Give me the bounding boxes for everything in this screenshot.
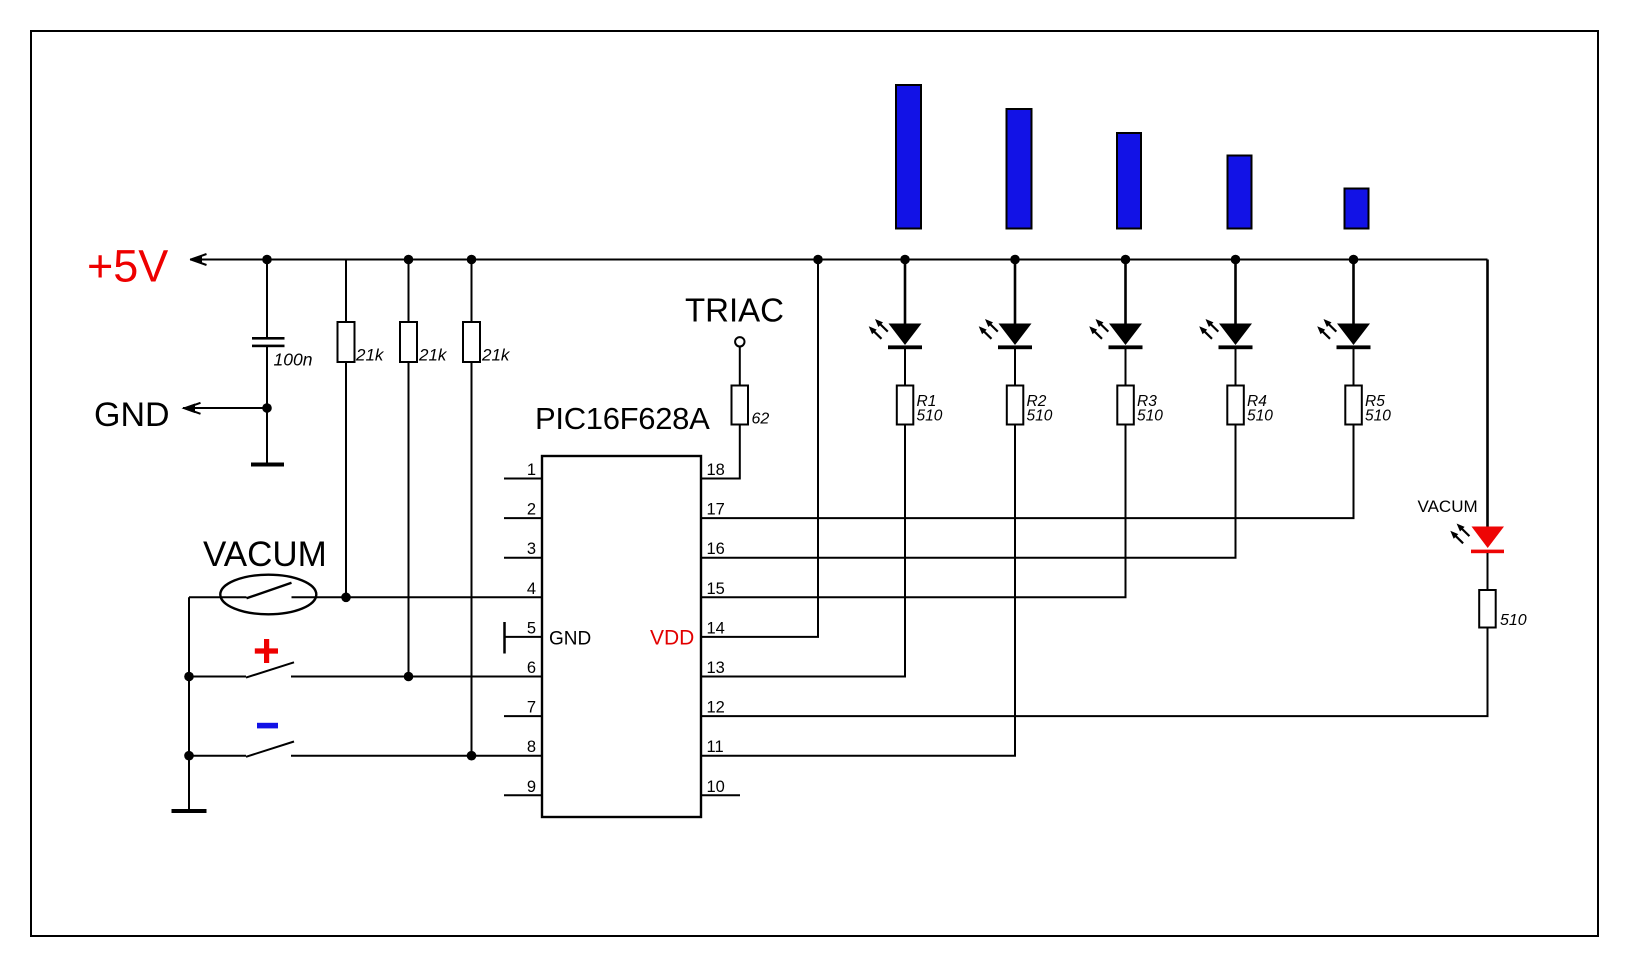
svg-text:5: 5 <box>527 619 536 637</box>
wire rail to LED4 <box>1234 260 1237 324</box>
wire pin8 left segment <box>189 755 246 757</box>
svg-text:VDD: VDD <box>650 627 694 650</box>
IC U1 PIC16F628A <box>542 456 701 817</box>
wire pin3 stub <box>504 557 542 559</box>
node LED3 junction on rail <box>1121 255 1131 265</box>
svg-text:510: 510 <box>917 408 943 425</box>
svg-text:13: 13 <box>707 659 725 677</box>
node R-21k#3 to pin8 wire <box>467 751 477 761</box>
ground (switch common) <box>172 809 207 813</box>
svg-text:7: 7 <box>527 699 536 717</box>
resistor R4 <box>1227 386 1244 425</box>
svg-text:21k: 21k <box>418 346 448 365</box>
wire pin8 right segment <box>291 755 542 757</box>
switch SW2 plus blade <box>246 662 294 677</box>
wire LED4 to R4 <box>1235 349 1237 386</box>
node R-21k#1 to pin4 wire <box>341 593 351 603</box>
svg-text:GND: GND <box>94 396 170 434</box>
svg-text:510: 510 <box>1365 408 1391 425</box>
svg-text:510: 510 <box>1027 408 1053 425</box>
svg-text:1: 1 <box>527 461 536 479</box>
wire pin4 left segment <box>189 596 247 598</box>
svg-text:510: 510 <box>1137 408 1163 425</box>
wire pin1 stub <box>504 478 542 480</box>
wire pin5 stub <box>505 636 543 638</box>
wire TRIAC terminal to R62 <box>739 347 741 386</box>
svg-text:100n: 100n <box>274 350 313 370</box>
wire pin6 right segment <box>291 676 542 678</box>
capacitor 100n <box>252 337 285 347</box>
bargraph segment 2 (blue) <box>1007 109 1032 229</box>
svg-text:8: 8 <box>527 738 536 756</box>
switch SW1 VACUM blade <box>247 583 292 599</box>
wire LED1 to R1 <box>904 349 906 386</box>
resistor 21k #2 <box>400 255 417 677</box>
label + (red) <box>255 639 278 663</box>
bargraph segment 4 (blue) <box>1228 156 1252 229</box>
svg-text:18: 18 <box>707 461 725 479</box>
bargraph segment 1 (blue) <box>896 85 921 229</box>
wire capacitor bottom lead to ground <box>266 347 268 463</box>
LED D1 <box>869 319 922 349</box>
wire pin16 to R4 <box>701 425 1236 558</box>
LED D2 <box>979 319 1032 349</box>
wire +5V rail <box>190 259 1488 261</box>
resistor R2 <box>1007 386 1024 425</box>
switch SW3 minus blade <box>246 742 294 757</box>
wire GND stub <box>183 407 267 409</box>
node TRIAC terminal <box>735 337 744 346</box>
svg-text:62: 62 <box>752 411 770 428</box>
node capacitor-GND junction <box>262 403 272 413</box>
switch SW1 enclosure ellipse <box>220 575 316 615</box>
wire pin9 stub <box>504 794 542 796</box>
wire rail to LED2 <box>1014 260 1017 324</box>
node GND arrow <box>185 403 201 414</box>
resistor 21k #1 <box>338 260 355 598</box>
wire pin11 to R2 <box>701 425 1015 756</box>
resistor 62 <box>732 386 749 425</box>
resistor R5 <box>1345 386 1362 425</box>
wire rail to LED3 <box>1124 260 1127 324</box>
wire +5V rail down to vacuum LED <box>1486 260 1489 527</box>
wire pin15 to R3 <box>701 425 1126 598</box>
svg-text:10: 10 <box>707 778 725 796</box>
wire pin13 to R1 <box>701 425 905 677</box>
node +5V arrow <box>191 254 207 265</box>
svg-text:510: 510 <box>1500 612 1527 629</box>
wire pin14 VDD to +5V rail <box>701 260 818 637</box>
wire pin12 to vacuum LED resistor <box>701 628 1488 717</box>
svg-text:16: 16 <box>707 540 725 558</box>
LED D5 <box>1317 319 1370 349</box>
resistor 21k #3 <box>463 255 480 756</box>
resistor R3 <box>1117 386 1134 425</box>
svg-text:6: 6 <box>527 659 536 677</box>
node R-21k#2 to pin6 wire <box>404 672 414 682</box>
bargraph segment 5 (blue) <box>1345 189 1369 229</box>
svg-text:12: 12 <box>707 699 725 717</box>
wire R62 to pin18 <box>701 425 740 479</box>
node LED4 junction on rail <box>1231 255 1241 265</box>
resistor R1 <box>897 386 914 425</box>
wire pin6 left segment <box>189 676 246 678</box>
wire pin7 stub <box>504 715 542 717</box>
node LED5 junction on rail <box>1349 255 1359 265</box>
node VDD junction on rail <box>813 255 823 265</box>
LED D4 <box>1199 319 1252 349</box>
svg-text:GND: GND <box>549 629 591 650</box>
svg-text:21k: 21k <box>481 346 511 365</box>
wire rail to LED1 <box>904 260 907 324</box>
wire LED5 to R5 <box>1353 349 1355 386</box>
ground T-bar pin5 <box>503 622 506 654</box>
node LED2 junction on rail <box>1010 255 1020 265</box>
svg-text:3: 3 <box>527 540 536 558</box>
svg-text:VACUM: VACUM <box>203 535 327 574</box>
wire pin17 to R5 <box>701 425 1354 519</box>
svg-text:2: 2 <box>527 501 536 519</box>
node capacitor junction on rail <box>262 255 272 265</box>
wire LED6 to R6 <box>1487 553 1489 590</box>
svg-text:11: 11 <box>707 738 724 756</box>
svg-text:PIC16F628A: PIC16F628A <box>535 401 710 436</box>
svg-text:21k: 21k <box>355 346 385 365</box>
wire capacitor top lead <box>266 260 268 338</box>
bargraph segment 3 (blue) <box>1117 133 1141 229</box>
wire pin4 right segment <box>292 596 543 598</box>
LED D6 VACUM (red) <box>1450 524 1504 554</box>
wire LED3 to R3 <box>1125 349 1127 386</box>
svg-text:4: 4 <box>527 580 536 598</box>
svg-text:17: 17 <box>707 501 725 519</box>
LED D3 <box>1089 319 1142 349</box>
ground (capacitor) <box>251 463 284 467</box>
wire rail to LED5 <box>1352 260 1355 324</box>
wire left vertical to ground <box>188 597 190 810</box>
wire LED2 to R2 <box>1014 349 1016 386</box>
svg-text:VACUM: VACUM <box>1418 497 1478 516</box>
svg-text:14: 14 <box>707 619 725 637</box>
node LED1 junction on rail <box>900 255 910 265</box>
svg-text:TRIAC: TRIAC <box>685 292 784 329</box>
svg-text:+5V: +5V <box>87 241 168 292</box>
node switch common / pin6 <box>184 672 194 682</box>
resistor R6 510 (vacuum) <box>1479 590 1496 628</box>
wire pin10 stub <box>701 794 740 796</box>
svg-text:15: 15 <box>707 580 725 598</box>
svg-text:9: 9 <box>527 778 536 796</box>
label - (blue) <box>257 723 278 729</box>
node switch common / pin8 <box>184 751 194 761</box>
wire pin2 stub <box>504 517 542 519</box>
svg-text:510: 510 <box>1247 408 1273 425</box>
